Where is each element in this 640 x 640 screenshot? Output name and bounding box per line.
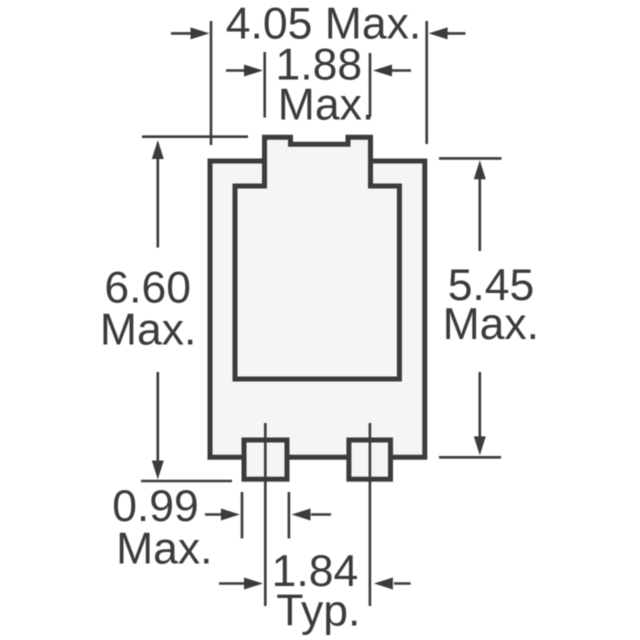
dimension 0.99 Max: left extension line <box>241 492 244 539</box>
dimension 1.88 Max: left arrow <box>226 65 263 77</box>
package top tab and inner face outline <box>235 137 399 379</box>
dimension 5.45 Max: bottom extension line <box>439 456 501 459</box>
dimension 0.99 Max: left arrow <box>205 509 240 521</box>
dimension 5.45 Max: lower arrow (pointing down) <box>474 372 486 455</box>
dimension label Typ. <box>276 586 360 635</box>
left lead pad <box>244 440 287 479</box>
dimension label Max. (below 1.88) <box>278 81 374 130</box>
dimension 1.84 Typ: left arrow <box>219 578 263 590</box>
dimension label Max. (below 0.99) <box>116 525 212 574</box>
dimension label 5.45 <box>448 261 535 310</box>
right lead centerline <box>369 423 372 606</box>
dimension 0.99 Max: right arrow <box>292 509 332 521</box>
dimension 1.84 Typ: right arrow <box>374 578 411 590</box>
dimension 6.60 Max: lower arrow (pointing down) <box>152 372 164 480</box>
dimension 4.05 Max: right extension line <box>425 21 428 144</box>
dimension 5.45 Max: top extension line <box>439 157 502 160</box>
dimension 6.60 Max: bottom extension line <box>141 480 232 483</box>
dimension 6.60 Max: upper arrow (pointing up) <box>152 140 164 248</box>
svg-text:Max.: Max. <box>443 300 539 349</box>
dimension 0.99 Max: right extension line <box>288 492 291 539</box>
dimension label 0.99 <box>112 482 199 531</box>
dimension label 1.88 <box>275 41 362 90</box>
dimension 5.45 Max: upper arrow (pointing up) <box>474 160 486 251</box>
dimension 4.05 Max: left arrow <box>171 27 210 39</box>
dimension label 6.60 <box>104 264 191 313</box>
svg-text:Max.: Max. <box>278 81 374 130</box>
svg-text:Typ.: Typ. <box>276 586 360 635</box>
dimension 1.88 Max: left extension line <box>263 52 266 118</box>
svg-text:Max.: Max. <box>116 525 212 574</box>
svg-text:Max.: Max. <box>100 305 196 354</box>
dimension 1.88 Max: right extension line <box>369 53 372 117</box>
right lead pad <box>349 440 391 479</box>
dimension label 1.84 <box>272 547 359 596</box>
dimension 4.05 Max: right arrow <box>429 27 466 39</box>
left lead centerline <box>264 423 267 606</box>
dimension label Max. (below 6.60) <box>100 305 196 354</box>
dimension 6.60 Max: top extension line <box>142 135 248 138</box>
dimension 1.88 Max: right arrow <box>373 65 411 77</box>
package body outer rectangle <box>210 161 425 457</box>
dimension label 4.05 Max. <box>226 0 421 48</box>
dimension 4.05 Max: left extension line <box>210 21 213 145</box>
dimension label Max. (below 5.45) <box>443 300 539 349</box>
